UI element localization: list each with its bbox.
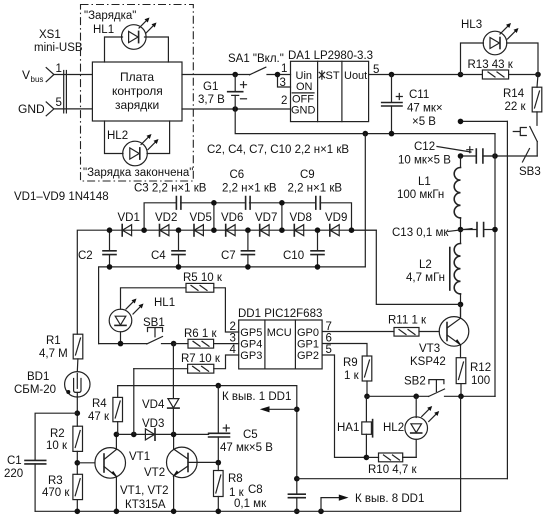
svg-text:GP1: GP1 [297,339,319,351]
svg-text:BD1: BD1 [27,371,49,383]
svg-text:C5: C5 [243,429,258,441]
buzzer HA1 [337,396,373,457]
pushbutton SB3 [513,127,540,179]
node C6-C9 top rail [279,200,285,206]
wire multiplier bottom rail [99,267,366,344]
wire HL1 indicator branch [99,343,122,345]
svg-text:GND: GND [18,102,45,116]
LED HL2 (charge complete indicator) [83,130,193,179]
svg-text:R8: R8 [228,473,243,485]
node R13 right [535,72,541,78]
svg-text:4,7 М: 4,7 М [39,348,68,360]
node BD1 cathode [75,410,81,416]
svg-text:HL1: HL1 [93,24,114,36]
svg-text:1: 1 [281,63,287,75]
svg-text:SB2: SB2 [404,376,426,388]
node R7 drop on VD3 row [131,432,137,438]
svg-text:R5 10 к: R5 10 к [183,272,223,284]
wire VD3 row [116,433,208,435]
diode VD7 [255,212,277,236]
node R2-R3 divider [75,460,81,466]
wire XS1 pin5 to charge board [54,108,93,110]
svg-text:1 к: 1 к [344,370,360,382]
svg-text:R11 1 к: R11 1 к [388,315,427,327]
resistor R10 4.7k [366,453,417,476]
svg-text:зарядки: зарядки [115,98,159,112]
diode VD9 [325,212,347,236]
wire R1 to BD1 [76,359,79,372]
node HL1 bottom [118,341,124,347]
node Vdd wire to C8 [294,476,300,482]
svg-text:C8: C8 [248,484,263,496]
svg-text:ST: ST [326,70,340,82]
connector XS1 mini-USB [18,29,83,116]
resistor R14 22k [503,75,542,126]
wire L1 top lead [460,156,462,168]
svg-text:R7 10 к: R7 10 к [181,353,221,365]
svg-text:C9: C9 [300,169,315,181]
resistor R12 100 [456,358,491,397]
node VT2 collector VD4 [171,432,177,438]
svg-text:СБМ-20: СБМ-20 [14,384,56,396]
svg-text:GP3: GP3 [240,350,262,362]
svg-text:mini-USB: mini-USB [34,42,83,54]
capacitor C12 10uF [398,141,495,167]
svg-text:C10: C10 [283,250,304,262]
svg-text:×5 В: ×5 В [412,116,436,128]
wire L1 to C13 [460,218,462,244]
LED HL3 [461,19,519,55]
node SB2 right R12 [458,394,464,400]
svg-text:HL2: HL2 [383,422,404,434]
svg-text:"Зарядка": "Зарядка" [84,10,136,22]
node R13 left [458,72,464,78]
transistor VT3 KSP42 [410,304,469,368]
wire GP2 to buzzer node [322,355,366,457]
svg-text:4: 4 [230,344,237,356]
svg-text:R6 1 к: R6 1 к [184,328,217,340]
svg-text:10 мк×5 В: 10 мк×5 В [398,155,451,167]
node C8 ground [294,509,300,515]
node C11 top [389,72,395,78]
svg-text:C1: C1 [7,455,22,467]
svg-text:VD6: VD6 [221,212,243,224]
svg-text:L1: L1 [418,176,431,188]
node C5 top feed [216,383,222,389]
wire C5 feed drop [217,386,219,433]
svg-text:SB3: SB3 [519,166,541,178]
svg-text:R12: R12 [470,362,491,374]
charge control board box [92,62,182,121]
svg-text:C3 2,2 н×1 кВ: C3 2,2 н×1 кВ [134,183,207,195]
capacitor C3 [176,197,181,210]
svg-text:C4: C4 [151,250,166,262]
svg-text:2,2 н×1 кВ: 2,2 н×1 кВ [222,183,277,195]
svg-text:7: 7 [326,321,332,333]
node VT1 collector R4 [114,432,120,438]
svg-text:VT1: VT1 [129,451,150,463]
resistor R7 10k [134,353,239,373]
wire HL1 right lead [145,37,169,62]
svg-text:GP0: GP0 [297,327,319,339]
svg-text:VD4: VD4 [142,399,165,411]
svg-text:R2: R2 [50,428,65,440]
svg-text:5: 5 [56,97,62,109]
capacitor C11 47uF [382,75,443,134]
svg-text:2,2 н×1 кВ: 2,2 н×1 кВ [288,183,343,195]
svg-text:22 к: 22 к [505,101,527,113]
wire divider to VT1 base [77,462,95,464]
svg-text:SB1: SB1 [143,317,165,329]
node pin8 tap ground [318,509,324,515]
diode VD1 [118,212,140,236]
svg-text:0,1 мк: 0,1 мк [234,498,267,510]
svg-text:5: 5 [326,344,332,356]
svg-text:2: 2 [281,95,287,107]
LED HL1 (charging indicator) [84,10,157,49]
svg-text:GP2: GP2 [297,350,319,362]
capacitor C10 [283,230,324,267]
svg-text:C12: C12 [414,141,435,153]
node L1 feed [458,119,464,125]
svg-text:VD5: VD5 [190,212,212,224]
wire multiplier top rail [144,203,351,230]
svg-text:L2: L2 [419,259,432,271]
node C13 right [492,227,498,233]
node C11 bottom on ground rail [389,131,395,137]
inductor L2 4.7mH with core [406,244,461,294]
svg-text:VD1: VD1 [118,212,140,224]
svg-text:R9: R9 [343,357,358,369]
svg-text:R3: R3 [48,475,63,487]
arrow to DD1 pin 8 [321,498,341,512]
node VT1 emitter ground [114,509,120,515]
wire multiplier input from R1 [77,230,122,334]
capacitor C6 [246,197,251,210]
wire 3.3V to right bus [461,120,508,122]
svg-text:VD7: VD7 [255,212,277,224]
svg-text:VT1, VT2: VT1, VT2 [120,485,169,497]
node C3-C6 top rail [211,200,217,206]
wire ladder ground drop [364,134,366,267]
wire DA1 pin3 jog [278,75,291,88]
node multiplier output [349,227,355,233]
svg-text:C7: C7 [221,250,236,262]
wire ground bus right [494,134,496,397]
diode VD3 [142,418,164,440]
svg-text:MCU: MCU [267,327,292,339]
svg-text:47 мк×5 В: 47 мк×5 В [220,442,273,454]
svg-text:DD1 PIC12F683: DD1 PIC12F683 [238,308,322,320]
svg-text:DA1 LP2980-3.3: DA1 LP2980-3.3 [288,50,373,62]
wire R7 drop [133,369,135,435]
wire Vdd row R4 to C8 drop [118,386,297,494]
geiger tube BD1 SBM-20 [14,371,90,397]
node ladder ground drop [363,131,369,137]
svg-text:К выв. 8 DD1: К выв. 8 DD1 [355,493,424,505]
svg-text:G1: G1 [203,81,218,93]
wire DA1 pin5 output [369,74,461,76]
inductor L1 100uH [397,168,461,218]
wire BD1 cathode node [76,397,78,426]
wire charge board to SA1 [182,74,250,76]
svg-text:контроля: контроля [112,84,163,98]
node C7 bottom [245,264,251,270]
node DD1 pin1 tap [294,407,300,413]
svg-text:VT3: VT3 [419,343,440,355]
MCU DD1 PIC12F683 [238,308,322,369]
svg-text:V: V [22,68,30,82]
node C12 left [458,153,464,159]
wire R9 to SB2 [367,395,429,397]
node VT2 emitter ground [171,509,177,515]
svg-text:10 к: 10 к [46,440,68,452]
svg-text:1: 1 [56,63,62,75]
pushbutton SB1 [122,317,174,344]
svg-text:R13 43 к: R13 43 к [468,59,514,71]
regulator DA1 LP2980-3.3 [288,50,373,122]
node VD5-VD6 junction [211,227,217,233]
node SB2 left HL2 [413,394,419,400]
wire ground rail bottom [35,510,461,512]
svg-text:C13 0,1 мк: C13 0,1 мк [392,227,449,239]
svg-text:VD9: VD9 [325,212,347,224]
svg-text:R10 4,7 к: R10 4,7 к [368,464,417,476]
capacitor C13 0.1uF [392,223,495,240]
node R8 ground [216,509,222,515]
wire supply bus bottom to C8 [297,478,508,480]
svg-text:R14: R14 [503,88,525,100]
diode VD8 [290,212,312,236]
pushbutton SB2 [404,376,495,397]
wire charge board GND to DA1 pin2 [182,108,291,110]
node C12 right [492,153,498,159]
arrow to DD1 pin 1 [266,408,297,410]
node battery plus [232,72,238,78]
resistor R8 1k [214,463,245,512]
svg-text:Плата: Плата [120,70,154,84]
wire SB3 to C12 node [483,155,537,157]
svg-text:2: 2 [230,321,236,333]
svg-text:C11: C11 [409,89,429,101]
node R3 ground [75,509,81,515]
node C10 bottom [315,264,321,270]
wire HL3 left lead [461,43,484,75]
node C7 top [245,227,251,233]
wire to C1 [35,413,77,460]
node DA1 input [275,72,281,78]
capacitor C5 47uF [209,425,274,463]
diode VD5 [190,212,212,236]
node C13 left [458,227,464,233]
node C10 top [315,227,321,233]
node C2 bottom [107,264,113,270]
node C2 top [107,227,113,233]
resistor R4 47k [88,386,123,435]
wire GP1 to R9 [322,344,367,357]
svg-text:Uout: Uout [344,70,367,82]
svg-text:C2: C2 [78,250,93,262]
svg-text:R4: R4 [92,398,107,410]
resistor R3 470k [42,474,83,511]
switch SA1 power on [228,53,291,75]
node SB1-R6 junction [171,341,177,347]
resistor R5 10k [183,272,239,332]
transistor VT2 KT315A [144,434,218,511]
svg-text:HA1: HA1 [337,422,359,434]
wire R12 node down to ground rail [460,396,462,511]
node VD7-VD8 junction [279,227,285,233]
svg-text:VT2: VT2 [144,467,165,479]
svg-text:100 мкГн: 100 мкГн [397,189,444,201]
svg-text:HL3: HL3 [461,19,482,31]
resistor R2 10k [46,426,83,474]
svg-text:C2, C4, C7, C10 2,2 н×1 кВ: C2, C4, C7, C10 2,2 н×1 кВ [207,144,349,156]
svg-text:220: 220 [4,468,23,480]
capacitor C7 [221,230,254,267]
svg-text:VD8: VD8 [290,212,312,224]
wire SB2 right to ground bus [494,395,496,397]
capacitor C2 [78,230,116,267]
node C4 top [176,227,182,233]
svg-text:6: 6 [326,333,332,345]
svg-text:4,7 мГн: 4,7 мГн [406,272,445,284]
svg-text:К выв. 1 DD1: К выв. 1 DD1 [222,391,291,403]
LED HL1 rate indicator [109,288,186,344]
svg-text:GND: GND [291,105,316,117]
wire L2 to VT3 collector [460,294,462,317]
wire diode row [122,229,376,231]
svg-text:ON: ON [296,81,313,93]
resistor R11 1k [322,315,439,337]
wire C6 drop [213,203,215,230]
node VT3 collector [458,302,464,308]
svg-text:3,7 В: 3,7 В [198,94,225,106]
svg-text:R1: R1 [46,335,61,347]
svg-text:"Зарядка закончена": "Зарядка закончена" [83,167,193,179]
node R9 bottom SB2 row [364,394,370,400]
resistor R6 1k [174,328,239,348]
node C4 bottom [176,264,182,270]
svg-text:VD3: VD3 [142,418,164,430]
svg-text:КТ315А: КТ315А [125,499,166,511]
LED HL2 alarm [383,396,439,457]
capacitor C1 220 [4,455,46,511]
capacitor C4 [151,230,185,267]
svg-text:VD2: VD2 [155,212,177,224]
resistor R1 4.7M [39,334,83,360]
wire C9 drop [281,203,283,230]
svg-text:KSP42: KSP42 [410,356,446,368]
resistor R9 1k [343,356,372,396]
node battery minus [232,106,238,112]
svg-text:HL2: HL2 [107,130,128,142]
node VT2 base C5 bottom [216,460,222,466]
svg-text:100: 100 [471,375,490,387]
svg-text:SA1 "Вкл.": SA1 "Вкл." [228,53,284,65]
wire XS1 pin1 to charge board [54,74,93,76]
svg-text:3: 3 [230,333,236,345]
charger dash-dot enclosure [81,5,194,182]
svg-text:VD1–VD9 1N4148: VD1–VD9 1N4148 [14,191,109,203]
svg-text:GP4: GP4 [240,339,262,351]
svg-text:47 к: 47 к [88,411,110,423]
svg-text:47 мк×: 47 мк× [407,103,443,115]
transistor VT1 KT315A [95,434,150,511]
diode VD4 [142,344,179,434]
svg-text:470 к: 470 к [42,487,70,499]
wire multiplier output to collector node [352,230,461,304]
wire HL1 left lead [105,37,123,62]
wire HL3 right lead [507,43,538,75]
svg-text:XS1: XS1 [39,29,61,41]
wire right supply bus down [506,121,508,478]
capacitor C8 0.1uF [234,484,305,511]
wire G1 minus down to ground rail [235,109,495,134]
resistor R13 43k [461,59,539,79]
diode VD2 [155,212,177,236]
node VD1-VD2 junction [141,227,147,233]
battery G1 3.7V [198,75,247,110]
wire HL2 left lead [105,121,124,154]
svg-text:HL1: HL1 [154,297,175,309]
wire HL2 right lead [147,121,170,154]
node HA1 R10 junction [364,455,370,461]
svg-text:GP5: GP5 [240,327,262,339]
svg-text:C6: C6 [230,169,245,181]
capacitor C9 [316,197,321,210]
svg-text:bus: bus [31,75,44,84]
diode VD6 [221,212,243,236]
